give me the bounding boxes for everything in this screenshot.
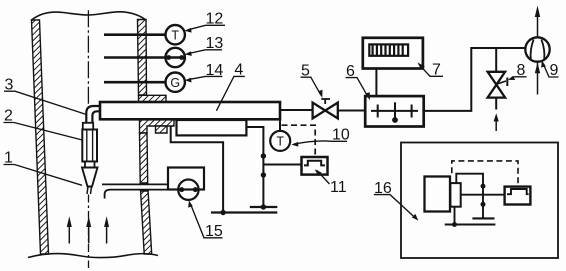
duct right wall lower (below pipe gap) (141, 191, 152, 254)
ground long bar (211, 211, 277, 213)
link 7 to 6 (375, 69, 377, 97)
dashed wires in 16 (452, 161, 518, 187)
svg-text:T: T (276, 135, 284, 149)
regulator box 11 (302, 157, 328, 175)
sensor line to T12 (104, 33, 166, 36)
label 9 (550, 62, 559, 79)
pipe box 6 to riser (424, 48, 526, 111)
label 4 (234, 62, 243, 79)
block A in 16 (425, 177, 451, 212)
junction dot (220, 210, 225, 215)
label 3 (5, 76, 14, 93)
valve 8 inlet stub (495, 98, 497, 110)
duct right wall upper (138, 20, 147, 96)
probe neck (85, 162, 95, 168)
indicator box 7 (363, 38, 423, 69)
return pipe lower line with bend (105, 190, 168, 199)
valve 5 (313, 103, 326, 119)
pump box 15 (168, 168, 204, 190)
label 2 (4, 108, 13, 125)
label 6 (346, 63, 355, 80)
label 1 (4, 150, 13, 167)
wire flange box to down lead (246, 127, 263, 207)
wall flange below probe box (140, 119, 175, 133)
junction dot (261, 153, 266, 158)
bracket wire in 16 (456, 174, 483, 219)
blower 9 (525, 37, 549, 61)
inlet arrow (494, 113, 499, 131)
label 15 (205, 223, 223, 240)
branch to thermometer 10 (279, 119, 281, 131)
label 10 (332, 127, 350, 144)
flow arrow left (67, 216, 72, 243)
svg-text:T: T (171, 28, 179, 42)
duct left wall (32, 20, 49, 254)
wire block B down (454, 207, 456, 225)
junction dot (452, 222, 457, 227)
junction dot (261, 172, 266, 177)
ground short bar (250, 206, 277, 208)
flow arrow middle (86, 216, 91, 243)
controller box 16 (401, 143, 558, 259)
ground short bar in 16 (472, 217, 494, 219)
flange box below 4 (177, 120, 247, 135)
pipe valve 5 to box 6 (338, 110, 365, 112)
label 14 (206, 62, 224, 79)
small box in 16 (505, 187, 531, 205)
label 16 (374, 180, 392, 197)
svg-text:G: G (170, 76, 180, 90)
block B in 16 (450, 183, 460, 207)
svg-text:11: 11 (330, 179, 347, 196)
exhaust line with arrow (535, 6, 540, 38)
wire to small box in 16 (461, 194, 505, 196)
probe box 4 (100, 102, 280, 119)
valve 8 (488, 72, 506, 85)
label 12 (206, 11, 224, 28)
thermometer circle T 10 (270, 131, 290, 151)
wall flange above probe box (139, 95, 167, 102)
flow arrow right (104, 216, 109, 243)
label 5 (301, 62, 310, 79)
label 7 (432, 62, 441, 79)
probe elbow 3 (86, 106, 101, 123)
duct right wall lower (above pipe gap) (140, 133, 148, 183)
analyzer box 6 (365, 96, 424, 126)
dashed link T10 to 11 (282, 125, 316, 156)
sensor circle 13 (166, 48, 185, 67)
pipe 4 to valve 5 (280, 109, 313, 111)
duct bottom break line (28, 253, 158, 257)
pump circle 15 (178, 180, 198, 200)
label 8 (517, 62, 526, 79)
label 11 (330, 179, 347, 196)
probe filter 2 (83, 123, 93, 130)
label 13 (206, 35, 224, 52)
junction dot (481, 184, 486, 189)
branch to valve 8 (495, 48, 497, 72)
return pipe upper line (102, 183, 168, 185)
probe nozzle 1 (82, 168, 98, 187)
duct top break line (31, 12, 147, 21)
blower bottom line with arrow (535, 62, 540, 95)
junction dot (481, 202, 486, 207)
sensor line to G14 (104, 81, 166, 84)
duct axis line (87, 10, 89, 104)
junction dot (261, 204, 266, 209)
ground long bar in 16 (445, 223, 496, 225)
thermometer circle T 12 (166, 25, 185, 44)
sensor line through 13 (104, 56, 185, 59)
wire to box 11 (263, 164, 301, 166)
small flange step below (156, 126, 168, 133)
sensor circle G 14 (166, 73, 185, 92)
wire L from box 4 bottom (171, 126, 223, 213)
